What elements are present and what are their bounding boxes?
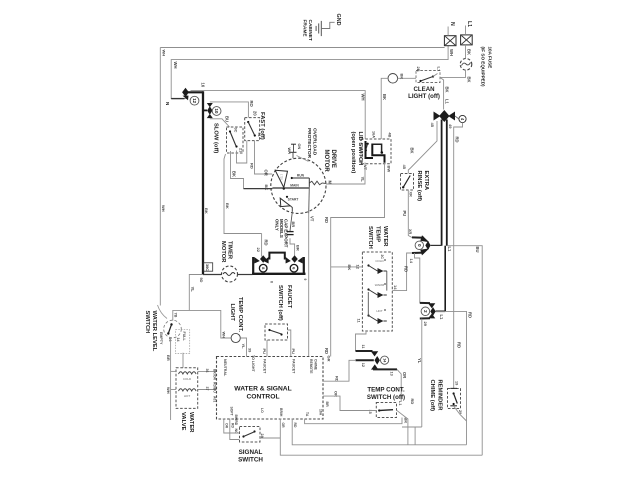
- svg-text:WH: WH: [287, 148, 291, 155]
- svg-text:XR: XR: [408, 229, 412, 235]
- svg-text:16A: 16A: [371, 131, 375, 138]
- wire: temp cont switch right to bus: [397, 410, 408, 445]
- motor right output (M): [308, 178, 310, 187]
- svg-text:BK: BK: [382, 94, 387, 100]
- node terminal 4: [459, 115, 466, 122]
- svg-text:SWITCH: SWITCH: [238, 456, 263, 463]
- svg-text:ON: ON: [297, 144, 301, 150]
- svg-text:OR: OR: [264, 170, 269, 176]
- svg-text:49: 49: [448, 124, 453, 129]
- svg-text:WATER: WATER: [188, 412, 194, 433]
- switch WATER TEMP SWITCH dashed box: [362, 252, 392, 331]
- svg-text:16: 16: [201, 83, 206, 88]
- wire: bottom bus (TA to temp cont switch): [305, 418, 402, 424]
- svg-text:L1: L1: [398, 401, 402, 405]
- ground (cabinet frame earth symbol): [315, 26, 317, 31]
- svg-text:LID SWITCH: LID SWITCH: [357, 132, 363, 166]
- svg-text:22: 22: [256, 248, 261, 253]
- water temp switch inner connectors: [386, 271, 388, 291]
- svg-text:TA: TA: [305, 412, 309, 417]
- svg-text:MAIN: MAIN: [290, 183, 299, 187]
- svg-text:10: 10: [214, 109, 219, 114]
- svg-text:EMPTY: EMPTY: [159, 332, 163, 345]
- svg-text:SWITCH: SWITCH: [144, 311, 150, 334]
- svg-text:N: N: [449, 22, 455, 26]
- node terminal 2: [421, 307, 430, 316]
- svg-text:TEMP CONT.: TEMP CONT.: [237, 297, 243, 332]
- svg-text:BR: BR: [166, 355, 171, 361]
- svg-text:19: 19: [454, 381, 458, 385]
- junction diamond L1: [439, 110, 449, 122]
- wire: BU loop right: [447, 246, 482, 456]
- svg-text:YL: YL: [241, 344, 246, 350]
- wire: long WH wire to lid switch: [191, 91, 366, 139]
- svg-text:OR: OR: [225, 423, 229, 429]
- svg-text:GND: GND: [335, 14, 341, 26]
- svg-text:11: 11: [361, 345, 365, 349]
- temp cont light lamp: [231, 333, 240, 342]
- switch FAST (off): [245, 118, 260, 141]
- wire: bottom bus outer: [280, 419, 482, 456]
- water temp switch contact row 2: [367, 288, 369, 290]
- svg-text:(IF SO EQUIPPED): (IF SO EQUIPPED): [481, 47, 486, 88]
- lid switch contacts (thick): [366, 141, 374, 158]
- svg-text:WATER: WATER: [382, 226, 388, 247]
- svg-text:BR/H: BR/H: [279, 408, 283, 417]
- wire: W&S to signal switch feeds: [224, 419, 240, 434]
- wire: signal switch right: [260, 437, 280, 439]
- svg-text:3C: 3C: [234, 128, 238, 133]
- wire: top bus line A (to N terminal): [160, 47, 444, 49]
- svg-text:START: START: [288, 198, 299, 202]
- timer cam selector baseline: [252, 273, 306, 275]
- wire: terminal 0 to heavy bus: [431, 244, 442, 246]
- svg-text:BK: BK: [204, 208, 209, 214]
- svg-text:16: 16: [168, 338, 172, 342]
- svg-text:SIGNAL: SIGNAL: [239, 449, 263, 456]
- WATER & SIGNAL CONTROL dashed box: [217, 357, 324, 420]
- water valve solenoid COLD: [179, 372, 197, 374]
- svg-text:FULL: FULL: [182, 332, 186, 342]
- svg-text:7B: 7B: [174, 313, 178, 318]
- svg-text:WATER LEVEL: WATER LEVEL: [151, 311, 157, 352]
- svg-text:14: 14: [382, 358, 386, 362]
- svg-text:SWITCH (off): SWITCH (off): [367, 394, 405, 401]
- switch: lid switch dashed box: [361, 139, 391, 164]
- svg-text:2B: 2B: [416, 67, 421, 72]
- svg-text:L1: L1: [466, 21, 472, 27]
- svg-text:8: 8: [270, 281, 274, 283]
- svg-text:COLD: COLD: [375, 259, 384, 263]
- svg-text:BK: BK: [400, 74, 405, 80]
- wire: terminal 10 to FAST switch (RO): [207, 103, 213, 107]
- svg-text:BK: BK: [466, 77, 471, 83]
- wire: terminal 6 riser + capacitor (BR): [290, 238, 295, 255]
- svg-text:HOT: HOT: [376, 309, 383, 313]
- svg-text:CABINET: CABINET: [307, 20, 313, 41]
- wire: water level switch to valve (BR): [170, 338, 172, 421]
- svg-text:RUN: RUN: [297, 174, 305, 178]
- node terminal 8: [259, 264, 267, 272]
- switch SIGNAL SWITCH: [240, 427, 261, 443]
- svg-text:BK: BK: [231, 171, 236, 177]
- wire: bus to timer motor: [203, 274, 222, 276]
- svg-text:OVERLOAD: OVERLOAD: [312, 128, 318, 156]
- 30C label box: [203, 263, 212, 271]
- node terminal 10: [203, 109, 208, 111]
- svg-text:21: 21: [239, 148, 243, 152]
- svg-text:WH: WH: [162, 50, 167, 57]
- svg-text:BR: BR: [325, 402, 329, 408]
- svg-text:VT: VT: [310, 216, 315, 222]
- svg-text:RD: RD: [457, 342, 462, 348]
- svg-text:BK: BK: [444, 87, 449, 93]
- svg-text:37: 37: [205, 387, 209, 391]
- svg-text:9: 9: [303, 279, 307, 281]
- wire: water temp switch bottom to terminal 14 (11): [356, 331, 367, 351]
- svg-text:20: 20: [252, 111, 257, 116]
- svg-text:29: 29: [423, 322, 428, 327]
- svg-text:BR: BR: [291, 222, 296, 228]
- svg-text:RD: RD: [231, 423, 235, 428]
- node terminal 12: [190, 96, 199, 105]
- svg-text:14: 14: [409, 259, 414, 264]
- svg-text:BK/OR: BK/OR: [213, 369, 217, 380]
- wire: W&S stub to temp cont switch left: [323, 396, 376, 410]
- wire: motor bottom to crown/W&S (VT): [308, 187, 311, 214]
- switch WATER LEVEL SWITCH: [158, 305, 168, 319]
- svg-text:MOTOR: MOTOR: [323, 150, 329, 173]
- svg-text:BU: BU: [225, 116, 230, 122]
- svg-text:BU: BU: [475, 247, 480, 253]
- svg-text:RD: RD: [264, 240, 269, 246]
- switch SLOW (off): [227, 127, 244, 153]
- wire: outer-left vertical: [159, 48, 161, 306]
- svg-text:CHIME (off): CHIME (off): [429, 380, 435, 412]
- svg-text:4B: 4B: [388, 133, 392, 138]
- svg-text:ONLY: ONLY: [274, 219, 279, 231]
- motor internal: main line: [272, 187, 309, 189]
- switch REMINDER CHIME (off): [448, 389, 461, 409]
- junction above terminal 8: [260, 255, 266, 263]
- svg-text:RD: RD: [293, 423, 297, 428]
- svg-text:30C: 30C: [205, 264, 209, 271]
- motor: drive motor dashed circle: [271, 158, 326, 213]
- svg-text:FAUCET: FAUCET: [286, 285, 292, 309]
- svg-text:(open position): (open position): [350, 132, 356, 174]
- svg-text:L1: L1: [445, 99, 450, 105]
- svg-text:SWITCH (off): SWITCH (off): [277, 285, 283, 321]
- svg-text:WARM: WARM: [375, 283, 385, 287]
- svg-text:DRIVE: DRIVE: [330, 150, 336, 168]
- svg-text:RD: RD: [467, 312, 472, 318]
- svg-text:BK: BK: [410, 148, 415, 154]
- svg-text:NEUTRAL: NEUTRAL: [223, 359, 227, 377]
- svg-text:RINSE (off): RINSE (off): [416, 171, 422, 202]
- wire: branch left to water level switch 7B pin: [173, 310, 190, 320]
- wire: WH neutral bus line B: [171, 46, 448, 99]
- clean light switch: [416, 71, 440, 83]
- svg-text:WH: WH: [161, 205, 166, 212]
- svg-text:L1: L1: [439, 315, 444, 321]
- svg-text:BR: BR: [295, 245, 300, 251]
- wire: branch down to temp cont light (YL): [189, 275, 231, 339]
- junction diamond at terminal 0: [425, 241, 430, 250]
- svg-text:BK: BK: [347, 265, 352, 271]
- svg-text:14: 14: [393, 285, 398, 290]
- svg-text:RD: RD: [404, 266, 409, 272]
- wire: chime bottom to RD riser: [454, 406, 467, 421]
- water valve dashed box: [176, 368, 198, 409]
- wire: faucet switch pins to W&S: [266, 340, 268, 357]
- svg-text:13: 13: [389, 372, 393, 376]
- svg-text:WH: WH: [166, 387, 171, 394]
- svg-text:10A FUSE: 10A FUSE: [488, 47, 493, 69]
- wire: lamp to lid switch (BK): [381, 78, 388, 139]
- wire: heavy L1 pair down: [441, 120, 443, 246]
- svg-text:REMINDER: REMINDER: [436, 380, 442, 412]
- svg-text:OR: OR: [402, 372, 407, 378]
- svg-text:PU: PU: [402, 211, 407, 217]
- wire: heavy main bus: [186, 91, 204, 93]
- wire: FAST switch to motor (OR): [255, 141, 273, 174]
- node terminal 6: [290, 264, 298, 272]
- water temp switch contact row 1: [367, 264, 369, 266]
- svg-text:RO: RO: [249, 101, 254, 108]
- svg-text:YL: YL: [417, 358, 422, 364]
- svg-text:MOTOR: MOTOR: [220, 241, 226, 263]
- motor internal: start winding: [286, 196, 288, 198]
- switch EXTRA RINSE (off): [401, 174, 414, 191]
- crown posts: [252, 257, 254, 274]
- svg-text:WATER & SIGNAL: WATER & SIGNAL: [234, 386, 291, 393]
- svg-text:CONTROL: CONTROL: [246, 393, 279, 400]
- svg-text:TEMP: TEMP: [374, 226, 380, 242]
- water valve solenoid HOT: [179, 389, 197, 391]
- svg-text:L1: L1: [447, 247, 452, 253]
- terminal L1: [461, 35, 473, 45]
- capacitor CAP (export models only): [287, 234, 294, 236]
- svg-text:FAUCET: FAUCET: [263, 359, 267, 374]
- svg-text:REMOTE: REMOTE: [309, 359, 313, 374]
- wire: lamp to W&S control: [240, 338, 246, 357]
- wire: W&S stub to terminal 14 (RD): [323, 360, 356, 381]
- svg-text:1725: 1725: [280, 174, 284, 180]
- motor: timer motor: [222, 266, 238, 282]
- svg-text:VALVE: VALVE: [180, 412, 186, 431]
- svg-text:BK: BK: [466, 49, 471, 55]
- svg-text:LIGHT: LIGHT: [229, 304, 235, 322]
- svg-text:RD/BU: RD/BU: [213, 382, 217, 393]
- svg-text:PU: PU: [262, 349, 267, 355]
- junction diamond at terminal 12: [182, 88, 189, 97]
- svg-text:45: 45: [402, 165, 407, 170]
- svg-text:TO LIGHT: TO LIGHT: [251, 355, 255, 373]
- terminal N: [444, 36, 456, 46]
- clean light lamp: [388, 74, 398, 84]
- svg-text:FAST (off): FAST (off): [259, 112, 265, 140]
- wire: terminal 8 riser to SLOW switch (RD 22): [224, 154, 262, 234]
- svg-text:SLOW (off): SLOW (off): [213, 123, 219, 153]
- svg-text:L1: L1: [437, 67, 442, 72]
- svg-text:16A: 16A: [319, 409, 323, 416]
- svg-text:FRAME: FRAME: [302, 20, 308, 38]
- wire: terminal 4 down (RD long): [454, 123, 463, 389]
- svg-text:12: 12: [361, 363, 365, 367]
- node terminal 14: [375, 356, 380, 365]
- motor internal: speed selector lever: [275, 170, 287, 187]
- svg-text:RD: RD: [410, 399, 415, 405]
- svg-text:12: 12: [356, 265, 361, 270]
- svg-text:TIMER: TIMER: [227, 241, 233, 260]
- svg-text:WH: WH: [361, 94, 366, 101]
- svg-text:BK: BK: [225, 203, 230, 209]
- svg-text:CHIME: CHIME: [314, 359, 318, 371]
- wire: clean light to L1 diamond: [440, 77, 444, 109]
- svg-text:36: 36: [205, 369, 209, 373]
- svg-text:COLD: COLD: [183, 377, 192, 381]
- svg-text:12: 12: [192, 98, 197, 103]
- svg-text:LO: LO: [260, 408, 264, 413]
- switch TEMP CONT SWITCH (off): [376, 403, 396, 418]
- wire: into water temp switch (BK 12): [331, 266, 363, 268]
- wire: terminal 2 down (YL): [421, 319, 423, 427]
- wire: terminal 0 down to terminal 2: [415, 253, 420, 303]
- svg-text:TEMP CONT.: TEMP CONT.: [367, 387, 405, 394]
- svg-text:YL: YL: [360, 177, 365, 183]
- svg-text:RD: RD: [324, 348, 329, 354]
- svg-text:HOT: HOT: [184, 394, 191, 398]
- wire: extra rinse to terminal 0 (PU): [408, 190, 412, 238]
- junction diamond at terminal 10: [207, 106, 212, 115]
- svg-text:LIGHT (off): LIGHT (off): [408, 93, 440, 100]
- svg-text:A01: A01: [213, 396, 217, 402]
- svg-text:FAUCET: FAUCET: [292, 359, 296, 374]
- svg-text:WH: WH: [222, 332, 227, 339]
- svg-text:VT: VT: [363, 165, 368, 171]
- svg-text:PU: PU: [291, 349, 296, 355]
- wire: motor to lid switch: [326, 163, 365, 185]
- svg-text:GR: GR: [327, 356, 332, 362]
- junction above terminal 6: [291, 255, 297, 263]
- wire: valve to W&S control: [198, 370, 217, 372]
- svg-text:BW: BW: [386, 166, 391, 173]
- fuse (10A): [465, 45, 467, 59]
- svg-text:XR: XR: [409, 192, 413, 198]
- svg-text:RD: RD: [250, 163, 255, 169]
- svg-text:PROTECTOR: PROTECTOR: [306, 128, 312, 159]
- svg-text:SOFT: SOFT: [230, 407, 234, 417]
- svg-text:WH: WH: [173, 62, 178, 69]
- wire: SLOW right pin to FAST left pin: [237, 141, 247, 163]
- wire: diamond to extra rinse (45/BK): [408, 121, 437, 174]
- svg-text:2C: 2C: [380, 255, 384, 260]
- svg-text:14: 14: [176, 338, 180, 342]
- svg-text:SWITCH: SWITCH: [367, 226, 373, 249]
- wire: water temp switch to terminal 0 (14/RD): [392, 253, 412, 291]
- wire: YL bus connector: [402, 426, 422, 428]
- svg-text:RD: RD: [324, 217, 329, 223]
- svg-text:YL: YL: [190, 287, 195, 293]
- wire: bottom bus mid: [292, 419, 466, 445]
- wire: terminal 10 to SLOW switch (BU): [207, 114, 213, 118]
- wire: heavy bus to terminal 2: [444, 246, 446, 312]
- overload protector: [290, 151, 297, 153]
- svg-text:BK: BK: [264, 185, 269, 191]
- water temp switch contact row 3: [367, 314, 369, 316]
- node terminal 0: [415, 241, 423, 249]
- wire: terminal 2 loop right (RD): [436, 311, 467, 444]
- svg-text:9D: 9D: [199, 278, 203, 283]
- wire: terminal 14 to temp cont switch (OR 13): [397, 369, 401, 401]
- svg-text:2A: 2A: [260, 434, 264, 439]
- wire: lid switch to W&S control (RD): [331, 163, 385, 357]
- svg-text:RD: RD: [455, 137, 460, 143]
- svg-text:EXTRA: EXTRA: [423, 171, 429, 191]
- wire: SLOW switch to motor (BK): [231, 151, 244, 189]
- svg-text:WH: WH: [449, 49, 454, 56]
- svg-text:45: 45: [430, 123, 435, 128]
- switch FAUCET SWITCH (off): [265, 324, 288, 340]
- motor internal: run contact: [291, 177, 293, 179]
- svg-text:OR: OR: [281, 423, 285, 429]
- svg-text:39: 39: [247, 348, 251, 352]
